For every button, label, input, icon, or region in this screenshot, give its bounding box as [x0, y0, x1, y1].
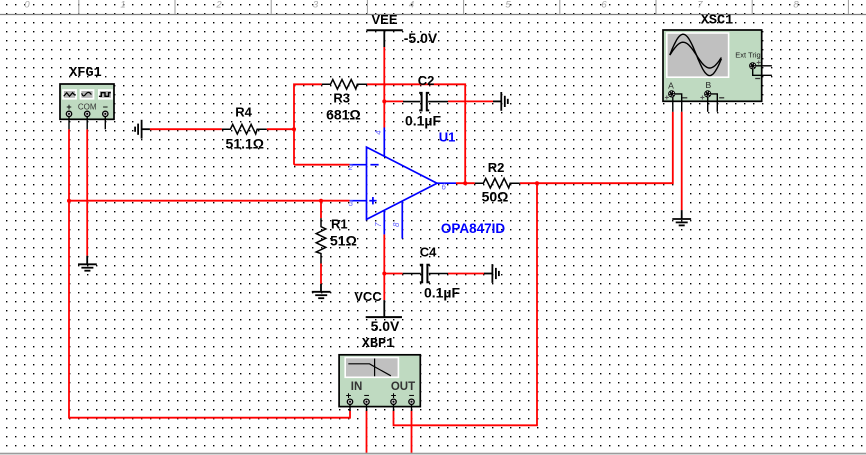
- svg-text:7: 7: [697, 0, 703, 11]
- resistor R3 681 ohm: [322, 80, 367, 90]
- svg-text:7: 7: [374, 222, 383, 227]
- wire R4 to junction: [267, 128, 294, 130]
- VCC 5.0V supply: [366, 300, 402, 317]
- wire op-amp output to R2: [456, 182, 475, 184]
- svg-text:50Ω: 50Ω: [482, 189, 509, 205]
- resistor R1 51 ohm (vertical): [316, 218, 326, 263]
- svg-text:0.1µF: 0.1µF: [405, 113, 442, 129]
- terminal Ext Trig: [749, 62, 756, 69]
- wire noninverting input row (node to pin 3): [69, 200, 350, 202]
- terminal A: [668, 90, 675, 97]
- ground scope A minus: [672, 210, 691, 225]
- wire R3 right to output node down: [367, 84, 465, 183]
- pin 7 lead: [383, 210, 385, 234]
- wire C2 right to ground: [448, 100, 493, 102]
- op-amp U1 OPA847ID: [350, 128, 456, 239]
- svg-text:R1: R1: [331, 216, 348, 231]
- wire XBP IN- down: [366, 411, 368, 453]
- svg-text:XSC1: XSC1: [701, 14, 733, 29]
- svg-text:2: 2: [215, 0, 222, 11]
- svg-text:5: 5: [505, 0, 511, 11]
- wire R1 top: [320, 201, 322, 218]
- svg-text:−: −: [103, 102, 108, 112]
- svg-text:OPA847ID: OPA847ID: [441, 221, 506, 236]
- svg-text:C4: C4: [420, 245, 437, 260]
- node R4 out: [292, 127, 296, 131]
- svg-text:VEE: VEE: [371, 12, 397, 27]
- svg-text:51Ω: 51Ω: [330, 232, 357, 248]
- svg-text:8: 8: [793, 0, 799, 11]
- node input pin3 branch: [67, 199, 71, 203]
- top ruler: [0, 0, 866, 15]
- wire R2 right to scope A plus: [520, 112, 673, 183]
- svg-text:6: 6: [442, 183, 447, 192]
- scope A stub wires: [673, 66, 772, 112]
- square wave button: [98, 89, 113, 99]
- svg-text:4: 4: [409, 0, 414, 11]
- sine wave button: [80, 89, 95, 99]
- pin 8 lead (NC): [401, 201, 403, 238]
- terminal stubs: [69, 117, 105, 129]
- VEE -5.0V supply: [366, 30, 402, 47]
- minus dashes at terminals: [682, 79, 760, 98]
- scope trace outer sine: [670, 34, 722, 75]
- svg-text:R4: R4: [235, 105, 252, 120]
- svg-text:VCC: VCC: [354, 289, 382, 304]
- svg-text:5.0V: 5.0V: [371, 318, 400, 334]
- svg-text:3: 3: [349, 199, 354, 208]
- bode plotter XBP1: [339, 337, 420, 411]
- svg-text:4: 4: [374, 130, 383, 135]
- terminal B: [704, 90, 711, 97]
- bode curve: [348, 364, 391, 376]
- wire C4 right to ground: [448, 273, 484, 275]
- wire output junction down to XBP OUT+: [394, 183, 538, 425]
- pin 4 lead: [383, 128, 385, 157]
- wire VEE stem down to pin 4: [383, 47, 385, 128]
- svg-text:0: 0: [24, 0, 30, 11]
- ext trig stub wires: [756, 65, 772, 67]
- svg-text:A: A: [668, 81, 674, 91]
- wire XBP OUT- down: [411, 411, 413, 453]
- terminals: [66, 111, 108, 116]
- pin 3 lead: [350, 200, 367, 202]
- svg-text:U1: U1: [439, 130, 456, 145]
- svg-text:51.1Ω: 51.1Ω: [226, 135, 264, 151]
- function generator XFG1: [60, 66, 114, 129]
- pin 2 lead: [350, 164, 367, 166]
- svg-text:IN: IN: [351, 381, 363, 393]
- svg-text:COM: COM: [78, 103, 97, 112]
- svg-text:681Ω: 681Ω: [326, 107, 361, 123]
- svg-text:-5.0V: -5.0V: [404, 30, 438, 46]
- capacitor C2 0.1uF: [403, 93, 448, 111]
- wire XFG1 plus down-left-long to XBP IN+: [69, 129, 350, 417]
- terminal stubs: [350, 405, 412, 411]
- capacitor C4 0.1uF: [403, 265, 448, 283]
- wire pin7 to VCC: [383, 234, 385, 300]
- plus marks at terminals: [665, 61, 761, 100]
- svg-text:B: B: [705, 80, 711, 90]
- bottom scrollbar strip: [0, 453, 866, 455]
- svg-text:C2: C2: [418, 73, 435, 88]
- junction node dots: [67, 99, 539, 275]
- svg-text:R3: R3: [333, 90, 350, 105]
- wire input ground to R4: [150, 128, 222, 130]
- ground at R4 input (pointing left): [135, 120, 150, 139]
- scope trace inner sine: [670, 42, 722, 68]
- svg-text:XBP1: XBP1: [362, 337, 394, 352]
- svg-text:0.1µF: 0.1µF: [424, 284, 461, 300]
- terminals: [347, 399, 414, 404]
- node VEE / C2: [382, 99, 386, 103]
- svg-text:+: +: [66, 102, 71, 112]
- triangle wave button: [62, 89, 77, 99]
- wire feedback left vertical and to R3 / pin 2: [294, 84, 322, 164]
- ground at C4 (pointing right): [484, 264, 499, 283]
- resistor R2 50 ohm: [475, 178, 520, 188]
- minus mark: [370, 164, 378, 166]
- wire VCC node to C4: [384, 273, 402, 275]
- wire VEE node to C2: [384, 100, 403, 102]
- ground at C2 (pointing right): [493, 92, 508, 111]
- ground R1 bottom: [312, 284, 331, 298]
- node output feedback: [463, 181, 467, 185]
- ground XFG1 COM: [78, 256, 97, 271]
- oscilloscope XSC1: [663, 14, 772, 112]
- wire pin2 row: [294, 164, 350, 166]
- svg-text:R2: R2: [488, 160, 505, 175]
- scope B stub wires: [707, 97, 709, 112]
- node VCC / C4: [382, 272, 386, 276]
- wire XFG1 COM down to ground: [86, 129, 88, 255]
- svg-text:1: 1: [120, 0, 125, 11]
- node output to XBP: [535, 181, 539, 185]
- pin 6 lead: [437, 182, 456, 184]
- node R1 top: [319, 199, 323, 203]
- svg-text:XFG1: XFG1: [69, 66, 101, 81]
- plus mark: [369, 200, 376, 202]
- svg-text:2: 2: [348, 163, 354, 172]
- svg-text:3: 3: [313, 0, 319, 11]
- svg-text:Ext Trig: Ext Trig: [735, 51, 760, 60]
- svg-text:6: 6: [601, 0, 607, 11]
- wire R1 bottom to ground: [320, 264, 322, 284]
- wire scope A minus down to ground: [681, 112, 683, 210]
- resistor R4 51.1 ohm: [222, 124, 267, 134]
- svg-text:8: 8: [392, 222, 401, 227]
